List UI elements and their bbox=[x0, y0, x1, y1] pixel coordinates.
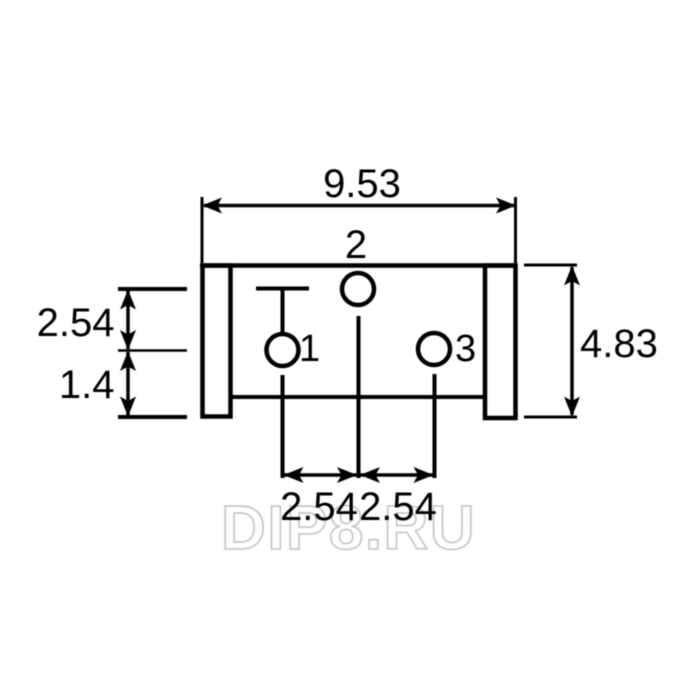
dimension 9.53 arrowhead left bbox=[202, 198, 222, 214]
right extension line bottom bbox=[524, 416, 577, 419]
right mounting tab bbox=[485, 266, 516, 419]
left mounting tab bbox=[203, 266, 231, 417]
svg-text:9.53: 9.53 bbox=[323, 162, 401, 206]
svg-text:3: 3 bbox=[455, 328, 476, 370]
bottom dimension arrowhead left at pin1 bbox=[284, 467, 304, 483]
pin 2 lead line bbox=[357, 316, 361, 478]
svg-text:2.54: 2.54 bbox=[359, 485, 437, 529]
dimension 9.53 arrowhead right bbox=[496, 198, 516, 214]
svg-text:2.54: 2.54 bbox=[37, 301, 115, 345]
body top edge bbox=[200, 263, 518, 268]
bottom dimension arrowhead left at pin2 bbox=[360, 467, 380, 483]
dimension 2.54 left line bbox=[126, 291, 130, 349]
svg-text:2: 2 bbox=[345, 223, 367, 267]
left extension line top bbox=[118, 287, 187, 291]
left extension line bottom bbox=[118, 415, 187, 419]
body bottom edge bbox=[231, 395, 486, 399]
dimension 2.54 left arrowhead up bbox=[120, 290, 136, 310]
dimension 9.53 extension line right bbox=[514, 197, 517, 263]
svg-text:1.4: 1.4 bbox=[59, 363, 115, 407]
dimension 9.53 line bbox=[204, 204, 514, 208]
svg-text:1: 1 bbox=[299, 328, 320, 370]
dimension 4.83 line bbox=[570, 267, 574, 415]
dimension 4.83 arrowhead down bbox=[564, 397, 580, 417]
pin 1 reference tick vertical bbox=[281, 289, 285, 334]
dimension 9.53 extension line left bbox=[201, 197, 204, 263]
pin 2 circle bbox=[342, 273, 374, 305]
pin 3 lead line bbox=[433, 374, 437, 478]
bottom dimension arrowhead right at pin2 bbox=[337, 467, 357, 483]
dimension 1.4 arrowhead down bbox=[120, 397, 136, 417]
dimension 2.54 left arrowhead down bbox=[120, 330, 136, 350]
dimension 1.4 arrowhead up bbox=[120, 351, 136, 371]
dimension 4.83 arrowhead up bbox=[564, 266, 580, 286]
svg-text:2.54: 2.54 bbox=[280, 485, 358, 529]
svg-text:4.83: 4.83 bbox=[580, 322, 658, 366]
right extension line top bbox=[524, 264, 577, 267]
pin 3 circle bbox=[418, 333, 450, 365]
left extension line middle bbox=[118, 349, 187, 352]
dimension 1.4 line bbox=[126, 352, 130, 415]
pin 1 circle bbox=[267, 334, 299, 366]
bottom dimension arrowhead right at pin3 bbox=[414, 467, 434, 483]
pin 1 reference tick horizontal bbox=[256, 287, 309, 291]
bottom dimension line bbox=[284, 473, 433, 477]
pin 1 lead line bbox=[281, 375, 285, 478]
